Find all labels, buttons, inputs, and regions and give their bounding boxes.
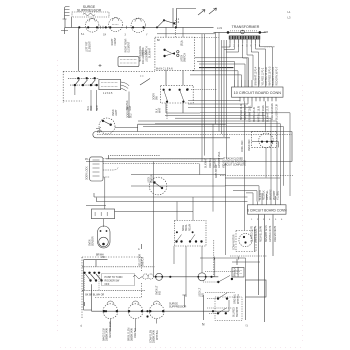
- scan artifact bottom dotted: [60, 347, 305, 349]
- label A1B: [264, 31, 269, 34]
- lower drops: [85, 273, 100, 291]
- svg-text:4: 4: [269, 219, 271, 221]
- squiggle right of box: [133, 276, 143, 279]
- svg-text:ELEMENT: ELEMENT: [89, 41, 92, 52]
- connector 6 circuit: [247, 205, 287, 214]
- wire dashed right: [265, 46, 276, 48]
- 6conn top pins: [253, 178, 280, 205]
- relay feed wires: [177, 197, 193, 221]
- svg-text:A1B: A1B: [264, 31, 269, 34]
- wire sensor right: [86, 206, 193, 212]
- bottom element E2: [128, 304, 143, 319]
- relay box dashed: [175, 221, 207, 247]
- wire out of oven light: [115, 124, 138, 131]
- label in latch box: [181, 53, 187, 62]
- label L1 N: [217, 27, 222, 30]
- dashed box latch: [155, 37, 194, 70]
- lower wire corner: [91, 284, 93, 311]
- svg-text:L3: L3: [288, 16, 291, 20]
- wire top main: [65, 17, 214, 31]
- svg-text:L1: L1: [80, 324, 83, 327]
- label cols above 10-conn: [255, 66, 279, 85]
- label above lower box: [96, 255, 104, 257]
- wire bus vertical v1: [201, 34, 203, 162]
- wire solid mid right: [232, 259, 260, 265]
- label door lock: [86, 166, 89, 180]
- svg-text:B1: B1: [181, 45, 185, 47]
- svg-text:GRY/RED: GRY/RED: [237, 266, 240, 277]
- plus mark: [99, 64, 102, 67]
- lower left rail: [84, 260, 92, 310]
- wire bus vertical v2: [204, 34, 206, 156]
- wire long mid band1: [138, 123, 226, 125]
- terminal switch levers: [75, 80, 95, 86]
- terminal strip dashed top: [63, 70, 155, 72]
- wire pin8 down: [260, 43, 273, 87]
- wire E tick: [108, 155, 110, 159]
- label col above circles: [139, 254, 145, 266]
- junction dots left of E3: [146, 310, 148, 318]
- transformer pins: [230, 39, 260, 43]
- wire long mid band3: [97, 134, 292, 136]
- svg-text:5-1: 5-1: [81, 34, 85, 36]
- wire pin3 elbow: [226, 43, 238, 52]
- wire fan from relay: [121, 82, 130, 91]
- svg-text:WHT: WHT: [159, 107, 162, 113]
- svg-text:5: 5: [275, 219, 277, 221]
- svg-text:ORG/BLK: ORG/BLK: [209, 158, 212, 168]
- svg-text:TAN/WHT: TAN/WHT: [236, 306, 239, 317]
- wire pin1 elbow: [222, 43, 231, 47]
- svg-text:N: N: [202, 323, 205, 327]
- conv fan motor: [236, 231, 256, 252]
- switch SW1: [157, 19, 175, 27]
- svg-text:RED/WHT 23 J6: RED/WHT 23 J6: [262, 105, 265, 122]
- svg-text:BR/WH: BR/WH: [96, 255, 104, 257]
- svg-text:BLK/WHT: BLK/WHT: [205, 157, 208, 168]
- svg-text:COOL FAN: COOL FAN: [241, 140, 244, 152]
- lower dashed row1: [82, 266, 155, 268]
- svg-text:A1: A1: [181, 41, 185, 44]
- label in doorsw box: [153, 93, 159, 100]
- svg-text:GRY: GRY: [129, 105, 132, 110]
- lamp L2: [197, 273, 206, 281]
- transformer primary dots: [227, 31, 261, 34]
- svg-text:6: 6: [281, 219, 283, 221]
- label cols below 6conn: [251, 225, 278, 242]
- label cols SC2: [234, 293, 241, 304]
- wire bus vertical v4: [218, 32, 220, 131]
- oven light circle: [99, 118, 115, 134]
- wire dashed right of box1: [194, 37, 219, 39]
- label A tick: [138, 248, 140, 251]
- fan motor circle: [252, 131, 279, 147]
- label TRANSFORMER: [232, 25, 260, 29]
- label left of fan: [241, 139, 251, 152]
- svg-text:ORG/VIO 36 P5: ORG/VIO 36 P5: [274, 225, 277, 242]
- receptacle R1: [85, 18, 99, 32]
- svg-text:L1: L1: [288, 10, 291, 14]
- wire fan feed: [265, 101, 267, 131]
- svg-text:SW: SW: [156, 96, 159, 100]
- junction dot bottom: [105, 310, 214, 312]
- transformer primary wire: [214, 31, 266, 33]
- switch cluster SC1: [203, 272, 240, 284]
- svg-text:SUPPRESSOR: SUPPRESSOR: [77, 8, 102, 12]
- wire dashed drop: [213, 240, 215, 277]
- svg-text:LIGHT: LIGHT: [115, 109, 118, 116]
- svg-text:ORG/RED 26 J8: ORG/RED 26 J8: [271, 103, 274, 120]
- bottom element E1: [103, 304, 118, 319]
- svg-text:L1 N: L1 N: [217, 27, 222, 30]
- wire band A2: [175, 118, 271, 195]
- power cord plug: [63, 7, 70, 20]
- wire band A6: [188, 101, 252, 108]
- svg-text:WHT/BLK 15 J5: WHT/BLK 15 J5: [258, 105, 261, 122]
- svg-text:RELAY: RELAY: [188, 223, 191, 231]
- svg-text:OVEN FAN: OVEN FAN: [248, 139, 251, 151]
- svg-text:FRONT: FRONT: [114, 37, 117, 45]
- relay block K1: [99, 79, 121, 89]
- label cols under E1: [103, 321, 112, 341]
- label in latch box bottom: [156, 68, 173, 71]
- wire band A4: [155, 124, 281, 178]
- wire right stairs to 6conn: [225, 178, 280, 202]
- wire latch lamp: [131, 185, 225, 187]
- scan artifact right dotted: [302, 85, 304, 345]
- wire bus vertical v6: [223, 40, 225, 137]
- label relay box: [182, 223, 191, 231]
- wires latch to doorsw: [166, 70, 200, 113]
- wire dashed inner: [174, 20, 176, 37]
- wire bus vertical v5: [221, 40, 223, 134]
- label under relay: [103, 92, 113, 95]
- label lock motor: [148, 174, 154, 183]
- wire bus vertical v7: [225, 40, 227, 159]
- wire pin7 down: [256, 43, 266, 87]
- relay contacts: [175, 231, 202, 242]
- oven light box: [118, 57, 139, 67]
- dashed box around switches: [215, 297, 242, 321]
- svg-text:6 CIRCUIT BOARD CONN: 6 CIRCUIT BOARD CONN: [247, 209, 287, 213]
- label under sensor: [101, 256, 105, 259]
- lower tiny text row: [85, 295, 104, 297]
- svg-text:CIRCUIT COMPLETE: CIRCUIT COMPLETE: [223, 164, 247, 167]
- svg-text:OFF: OFF: [105, 283, 110, 286]
- wire A tick: [140, 244, 142, 249]
- svg-text:L2: L2: [246, 324, 249, 327]
- lock motor circle: [149, 177, 167, 195]
- bottom element E3: [149, 304, 164, 319]
- wire long mid band2: [96, 131, 292, 133]
- box small right: [232, 268, 244, 278]
- ticks on wire 258: [214, 257, 239, 260]
- wire dashed mid right: [230, 255, 267, 257]
- 10-conn bottom pins: [240, 97, 276, 101]
- svg-text:RED: RED: [90, 105, 93, 110]
- terminal strip dashed bottom: [63, 100, 82, 102]
- svg-text:C4: C4: [103, 35, 107, 37]
- left cap of flat box: [93, 132, 96, 138]
- wire low band dashed: [106, 158, 223, 160]
- tiny label sw1: [176, 19, 180, 24]
- zigzag lever: [140, 79, 150, 86]
- svg-text:B2: B2: [157, 40, 161, 42]
- svg-text:YEL/BLU: YEL/BLU: [277, 190, 280, 200]
- lower dots row1: [83, 272, 100, 274]
- receptacle R3: [131, 18, 145, 32]
- label top right: [288, 10, 291, 20]
- lower dots row2: [89, 279, 102, 281]
- terminal strip dashed rows: [68, 78, 99, 85]
- svg-text:45→: 45→: [85, 158, 90, 161]
- label cols above 6conn: [259, 189, 280, 200]
- svg-text:ELEMENT: ELEMENT: [128, 41, 131, 52]
- label cols above light: [112, 106, 133, 118]
- wire long mid band4: [96, 137, 230, 139]
- label cols below 10-conn: [240, 103, 279, 122]
- svg-text:A: A: [138, 248, 140, 251]
- svg-text:WHT/BLU: WHT/BLU: [156, 330, 159, 340]
- label oven sensor: [89, 236, 95, 246]
- label cols under E3: [150, 330, 159, 343]
- tiny label 52: [97, 132, 101, 134]
- svg-text:TRANSFORMER: TRANSFORMER: [232, 25, 260, 29]
- svg-text:RED/YEL 35 P6: RED/YEL 35 P6: [260, 225, 263, 242]
- svg-text:1: 1: [251, 219, 253, 221]
- wire to arrow: [173, 8, 196, 27]
- wires from door lock: [103, 159, 223, 177]
- svg-text:10 CIRCUIT BOARD CONN: 10 CIRCUIT BOARD CONN: [234, 91, 282, 95]
- switch cluster SC3: [207, 308, 232, 315]
- label under lamp1: [156, 285, 162, 295]
- svg-text:SWITCH: SWITCH: [184, 53, 187, 62]
- wire box1 feeds: [166, 27, 183, 37]
- scan artifact left dotted: [57, 60, 59, 335]
- label SURGE SUPPRESSOR: [77, 5, 102, 12]
- conv fan right edge: [254, 227, 256, 252]
- wire bold bus: [199, 67, 234, 69]
- svg-text:SENSOR: SENSOR: [92, 236, 95, 246]
- label N: [202, 323, 205, 327]
- lower dashed right: [95, 257, 142, 298]
- ground terminal: [61, 31, 68, 35]
- connector 10 circuit: [232, 87, 284, 97]
- svg-text:RED/GRN 16 P1-7: RED/GRN 16 P1-7: [276, 66, 279, 85]
- lower dashed row2: [82, 289, 145, 291]
- wire mid corner: [131, 164, 226, 175]
- label cols mid: [142, 49, 148, 56]
- wire long low band: [86, 161, 292, 163]
- svg-text:VIO/BLK 24 J3: VIO/BLK 24 J3: [253, 107, 256, 122]
- surge suppressor: [72, 12, 109, 17]
- junction dots top wire: [78, 26, 177, 28]
- wire L2: [245, 297, 247, 320]
- door lock unit: [90, 157, 103, 181]
- wire dashed below doorsw: [166, 105, 168, 120]
- wire pin4 down: [243, 43, 247, 87]
- wire N drop: [202, 295, 204, 320]
- wires right column down: [259, 215, 273, 322]
- wire pin6 down: [251, 43, 258, 87]
- svg-text:ORG/BLK: ORG/BLK: [134, 328, 137, 338]
- label anti-tip col: [215, 164, 218, 178]
- wire pin5 down: [247, 43, 253, 80]
- svg-text:Y: Y: [146, 35, 148, 37]
- label L1: [80, 324, 83, 327]
- label M tick: [84, 302, 86, 306]
- wire pin2 elbow: [224, 43, 234, 49]
- lower dots right: [169, 276, 212, 278]
- T bar: [182, 295, 186, 307]
- svg-text:IND: IND: [159, 291, 162, 295]
- lower top wire: [84, 260, 108, 267]
- svg-text:WHT: WHT: [96, 105, 99, 111]
- svg-text:BRN/RED 22 J2: BRN/RED 22 J2: [240, 103, 243, 120]
- small circles pair: [143, 274, 154, 279]
- wire long low A: [94, 193, 248, 197]
- label under doorsw: [156, 107, 162, 113]
- lamp L1: [155, 273, 163, 280]
- long verticals center: [153, 162, 225, 277]
- arrow N1: [198, 10, 205, 16]
- wire into oven light: [96, 127, 102, 131]
- svg-text:RED/WHT 23 J6: RED/WHT 23 J6: [109, 321, 112, 338]
- 6conn bottom pin numbers: [251, 219, 283, 221]
- wire under top: [157, 33, 215, 35]
- junction dot left: [186, 88, 188, 90]
- wire band A3: [138, 121, 277, 196]
- wire staircase into 10-conn: [190, 58, 249, 80]
- svg-text:ANTI-TIP SW: ANTI-TIP SW: [215, 164, 218, 178]
- label cols left A: [86, 37, 152, 110]
- svg-text:M A N C L E A N: M A N C L E A N: [156, 68, 173, 71]
- lamp wire: [153, 276, 218, 278]
- long vertical solid: [212, 124, 214, 211]
- svg-text:GRY/BLU 34 P3: GRY/BLU 34 P3: [269, 225, 272, 242]
- wire L2 upper: [245, 258, 247, 280]
- switch cluster SC2: [205, 293, 235, 300]
- doorsw contacts: [163, 89, 189, 103]
- 10-conn top pin ticks: [235, 80, 253, 87]
- arrow N2: [209, 8, 217, 14]
- svg-text:GRY/WHT 25 J1: GRY/WHT 25 J1: [218, 151, 221, 168]
- wire band A0: [200, 113, 290, 196]
- transformer secondary winding: [229, 36, 260, 39]
- latch box top labels: [157, 40, 184, 47]
- wire band A1: [165, 114, 266, 116]
- svg-text:BK BR BL WH OR: BK BR BL WH OR: [85, 295, 104, 297]
- svg-text:LOCK: LOCK: [145, 50, 148, 57]
- svg-text:BLU/GRY 27 J9: BLU/GRY 27 J9: [276, 104, 279, 120]
- lower dashed top: [82, 256, 142, 258]
- svg-text:BLK/WHT 17 J7: BLK/WHT 17 J7: [267, 105, 270, 122]
- svg-text:BLU: BLU: [130, 113, 133, 118]
- label cols SC1: [234, 266, 241, 277]
- dashed box doorsw: [161, 85, 194, 103]
- bottom main wire: [92, 310, 230, 312]
- element terminal bumps: [107, 301, 160, 304]
- tiny marks below wire: [81, 34, 148, 37]
- svg-text:WHT/YEL: WHT/YEL: [237, 293, 240, 304]
- label under lamp2: [199, 287, 205, 297]
- sensor switch box: [92, 209, 115, 219]
- wire low band dashed2: [110, 155, 160, 157]
- wire dashed right of doorsw: [191, 89, 217, 91]
- wire relay drops: [75, 85, 129, 118]
- relay drop wires: [174, 246, 202, 297]
- svg-text:1 2 3 4 5: 1 2 3 4 5: [103, 92, 113, 95]
- transformer primary coil: [230, 30, 258, 34]
- left dashed rail: [62, 71, 64, 103]
- label cols SC3: [233, 306, 240, 317]
- wire bottom right link: [200, 258, 246, 311]
- element drop wires: [110, 319, 156, 331]
- lower box P: [102, 274, 135, 287]
- box bottom right: [246, 280, 267, 297]
- wire conv feed: [244, 101, 246, 230]
- transformer pin numbers: [229, 45, 261, 47]
- wires fan: [265, 148, 267, 178]
- left rail vertical: [78, 27, 80, 71]
- wire bus vertical v3: [214, 32, 216, 124]
- label surge bottom: [169, 303, 187, 309]
- receptacle R2: [109, 18, 123, 32]
- label L2: [246, 324, 249, 327]
- svg-text:SWITCH: SWITCH: [142, 257, 145, 266]
- svg-text:SUPPRESSOR: SUPPRESSOR: [169, 306, 187, 309]
- svg-text:BRN/WHT 32 P1: BRN/WHT 32 P1: [265, 225, 268, 242]
- wire dashed low right: [220, 174, 293, 176]
- label cols under E2: [128, 328, 137, 341]
- label cols mid center: [205, 151, 226, 168]
- wire right edge vertical: [291, 132, 293, 162]
- wire band A5: [143, 127, 284, 186]
- oven sensor capsule: [98, 219, 111, 248]
- oven sensor feed: [104, 177, 106, 209]
- svg-text:BLK/RED 31 P2: BLK/RED 31 P2: [251, 225, 254, 242]
- wire long low B: [96, 198, 247, 202]
- svg-text:3: 3: [125, 35, 127, 37]
- svg-text:CONV MOTOR: CONV MOTOR: [233, 234, 236, 250]
- note text mid right: [223, 158, 247, 167]
- svg-text:DOOR LOCK: DOOR LOCK: [86, 166, 89, 180]
- arrow into door lock: [85, 158, 90, 161]
- lower dashed rail left: [81, 257, 83, 318]
- label left of conv fan: [233, 234, 236, 250]
- lower switch levers: [86, 274, 102, 281]
- terminal dots row1: [77, 77, 96, 79]
- svg-text:BLK/WHT: BLK/WHT: [149, 47, 152, 58]
- wire left mid: [140, 75, 144, 77]
- latch switch contacts: [163, 49, 179, 58]
- svg-text:5 2: 5 2: [97, 132, 101, 134]
- terminal dots row2: [74, 84, 98, 86]
- tick marks top wire: [101, 26, 127, 29]
